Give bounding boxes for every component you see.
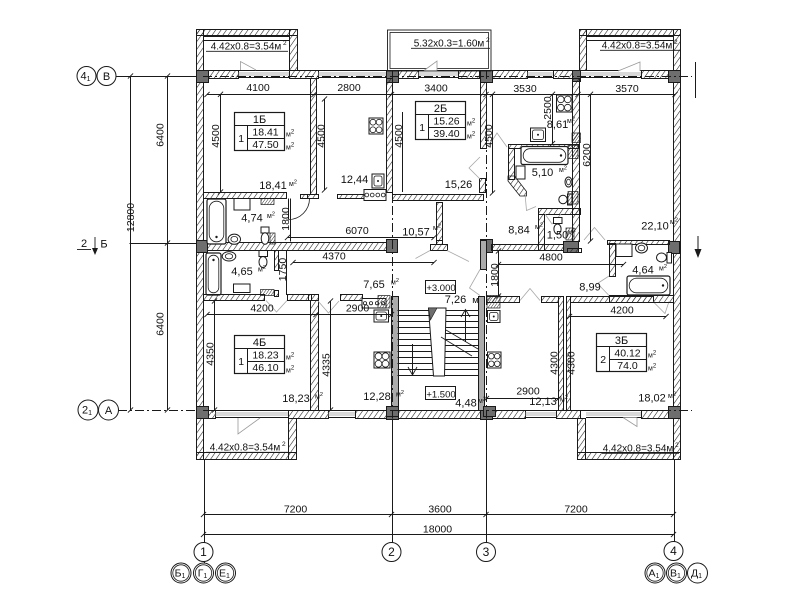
wall kitchen 8.61 bottom [509,145,579,149]
svg-text:5,10: 5,10 [532,167,553,179]
door arc room 1B [289,199,310,220]
wall 1B/kitchen vertical [311,79,317,195]
wall bottom seg f [557,411,581,419]
washbasin 4.64 [636,243,648,253]
svg-text:12800: 12800 [125,203,137,232]
svg-text:4100: 4100 [246,82,270,94]
svg-text:Б: Б [100,239,107,251]
axis circle V top left [97,67,116,86]
svg-text:3600: 3600 [428,504,452,516]
wall kitchen 12.13 top right [542,297,559,303]
washbasin 4.74 [228,234,240,244]
svg-text:4,74: 4,74 [241,213,262,225]
wall thin axis3 upper [481,83,487,149]
svg-text:+1.500: +1.500 [426,390,455,401]
balcony TC inner rect [390,33,489,69]
window kitchen 12.28 [328,411,355,418]
svg-text:4200: 4200 [250,303,274,315]
junction axis2-top [387,71,399,83]
door swing entrance 3B [470,270,481,296]
section mark 2 left [77,237,108,255]
svg-text:12,44: 12,44 [341,174,369,186]
wall corridor vertical (10.57) [437,203,443,241]
balcony TR parapet line 1 [586,36,673,38]
svg-text:2: 2 [283,40,287,47]
wall bottom seg e [490,411,526,419]
svg-text:4500: 4500 [316,124,328,148]
axis circle 2-1 bottom left [78,400,98,420]
svg-text:4800: 4800 [539,252,563,264]
wall 1B bottom [204,193,287,199]
balcony BL right wall [289,419,297,460]
axis circle A1 [645,563,665,583]
balcony TR parapet line 2 [586,40,673,42]
balcony TR label [600,39,680,52]
washer bath 5.10 [516,166,525,179]
toilet 4.65 [259,251,268,268]
sink kitchen 12.28 [374,310,389,322]
balcony door 22.10 [618,62,640,71]
svg-text:40.12: 40.12 [614,348,640,360]
apartment table 2B [416,102,476,141]
vent shaft right of stair [487,296,500,309]
svg-text:1800: 1800 [489,263,501,287]
svg-text:3530: 3530 [513,83,537,95]
axis circle 3 [477,543,496,562]
apartment table 3B [597,334,657,373]
door leaf room 1B [288,199,290,220]
wall bath 5.10 left [509,149,515,180]
svg-text:46.10: 46.10 [252,362,278,374]
window 4B bottom [215,411,288,418]
vent wc 1.50 [566,228,574,240]
svg-text:2: 2 [674,39,678,46]
dim 6200 line [590,94,592,241]
washbasin 4.65 [222,252,236,261]
door swing room 22.10 [584,228,605,241]
wall bath 4.64 left upper [610,244,616,277]
elevation mark +3.000 [426,281,456,295]
svg-text:4: 4 [670,544,677,558]
axis line A inside [203,410,692,412]
window kitchen 12.13 [525,411,556,418]
junction axis4-A [669,407,681,419]
svg-text:4370: 4370 [322,251,346,263]
wall kitchen 12.13 top [487,297,520,303]
wall room 3B top [571,297,654,303]
door swing bath 5.10 [525,194,536,211]
svg-text:2Б: 2Б [434,103,447,115]
svg-text:+3.000: +3.000 [426,283,455,294]
wall axis-B stub above footing [437,241,443,245]
junction axis2-A [387,407,399,420]
wall bottom seg c [356,411,387,419]
svg-text:1Б: 1Б [253,114,266,126]
svg-text:2900: 2900 [346,303,370,315]
svg-text:4,65: 4,65 [231,266,252,278]
balcony BL bottom wall [197,453,297,460]
svg-text:А: А [105,405,113,417]
vent on wall22 upper [568,146,578,159]
extension line B axis [130,243,197,245]
vent right of toilet 4.74 [270,233,275,244]
bathtub 4.65 [206,253,221,295]
dim line bottom 18000 [204,534,674,536]
balcony TL label [206,40,288,53]
svg-text:18,02: 18,02 [638,393,666,405]
stair up arrow [461,310,470,343]
axis line 3 vertical [486,70,488,418]
svg-text:В: В [103,71,110,83]
svg-text:2: 2 [486,37,490,44]
balcony TR right wall [674,30,681,71]
balcony BL label [206,441,289,454]
stair mid stringer [429,308,447,376]
dim 1750 line [286,251,288,296]
wall bottom seg d [398,411,481,419]
svg-text:4.42х0.8=3.54м: 4.42х0.8=3.54м [210,443,281,454]
wall bath 4.65 partition upper [275,251,279,271]
svg-text:1,50: 1,50 [547,230,568,242]
svg-text:18,23: 18,23 [282,393,310,405]
window kitchen 12.44 [318,71,387,78]
washer bath 4.74 [234,199,250,211]
wall thin axis3 lower stub [480,179,486,193]
wall axis-B left segment [208,243,387,251]
axis circle 1 [194,543,213,562]
door swing kitchen 12.13 [520,289,540,301]
dim 4500 line r1 right [324,99,326,190]
wall exterior left [197,71,204,419]
svg-text:8,84: 8,84 [508,225,529,237]
junction axis3-top [481,71,493,83]
svg-text:2500: 2500 [542,96,554,120]
bathtub 4.74 [207,199,226,244]
dim 2500 line [552,94,554,143]
svg-text:1: 1 [419,122,425,134]
stair wall left [392,297,399,411]
wall top seg g [642,71,670,79]
svg-text:7,26: 7,26 [445,294,466,306]
dim 6070 line [288,237,435,239]
svg-text:47.50: 47.50 [252,139,278,151]
balcony BR bottom wall [578,453,681,460]
svg-text:6200: 6200 [581,143,593,167]
svg-text:5.32х0.3=1.60м: 5.32х0.3=1.60м [414,39,485,50]
balcony BR label [602,442,679,455]
door swing room 18.02 [653,302,669,314]
door swing entrance 2B [447,251,469,262]
balcony TC outer rect [388,30,492,71]
balcony TL right wall [290,30,298,71]
wall axis-B right segment b thin [608,241,670,245]
stair treads [398,311,479,376]
svg-text:7,65: 7,65 [363,279,384,291]
washer bath 4.65 [234,284,251,293]
svg-text:3570: 3570 [615,83,639,95]
balcony TL parapet line 2 [203,40,289,42]
section mark arrow right [695,236,702,258]
door swing bath 4.64 [598,276,610,296]
closet line room 2B [402,112,404,192]
mark line top right [695,62,697,98]
toilet 4.64 [657,253,672,264]
axis line B horizontal [116,76,197,78]
svg-text:2: 2 [675,442,679,449]
svg-text:18,41: 18,41 [259,180,287,192]
dim 4500 line r2 right [492,94,494,193]
axis line B inside [203,76,692,78]
svg-text:8,99: 8,99 [579,282,600,294]
window room 18.02 [586,411,641,418]
wall bath 5.10 bottom / wc top [539,209,581,215]
wall bath 4.64 bottom [610,296,674,303]
svg-text:1800: 1800 [280,207,292,231]
svg-text:4,48: 4,48 [455,398,476,410]
wall exterior right [674,71,681,419]
window 1B top [238,71,289,78]
wall kitchen 12.28 top [341,295,363,301]
svg-text:7200: 7200 [284,504,308,516]
balcony door 4B [238,418,260,434]
junction axis2-Bb [387,240,398,253]
svg-text:10,57: 10,57 [402,227,430,239]
wall top seg e [492,71,528,79]
wall top seg a [204,71,239,79]
axis circle D1 [688,563,708,583]
door swing room 2B [469,157,480,179]
junction axis1-Bb [197,241,208,253]
svg-text:6400: 6400 [155,312,167,336]
apartment table 4B [235,336,295,375]
bathtub 5.10 [521,147,568,165]
svg-text:4.42х0.8=3.54м: 4.42х0.8=3.54м [603,444,674,455]
svg-text:15.26: 15.26 [433,116,459,128]
junction wall22-Bb [564,242,579,253]
wall top seg b [290,71,319,79]
junction axis4-B [669,71,681,83]
svg-text:4200: 4200 [610,305,634,317]
vent bath 4.65 [261,290,275,296]
elevation mark +1.500 [426,387,456,401]
svg-text:4300: 4300 [566,351,578,375]
stair footing right [484,407,496,417]
junction balcony TR [573,71,581,82]
vent kitchen 8.61 [572,133,581,143]
svg-text:12,13: 12,13 [529,396,557,408]
door swing wc 1.50 [545,214,561,224]
svg-text:18.41: 18.41 [252,127,278,139]
wall axis-B right segment a [492,245,564,251]
vent on wall22 lower [568,192,578,205]
wall top seg f [554,71,573,79]
dim 2900 12.13 line [487,398,559,400]
dim line 6400 [167,76,169,410]
dim line 12800 [130,76,132,410]
axis line A horizontal [118,410,196,412]
wall kitchen 12.44 bottom [338,195,365,199]
window 2B top [418,71,458,78]
axis circle 4 [664,542,683,561]
stair wall right [479,297,485,411]
dim 4335 line [330,301,332,410]
sink kitchen 12.13 [488,311,501,323]
svg-text:4.42х0.8=3.54м: 4.42х0.8=3.54м [211,42,282,53]
balcony BR left wall [578,419,586,460]
axis circle V1 [667,563,687,583]
window room 22.10 [580,71,641,78]
axis 3 extension to circle [486,419,488,543]
wall axis3 gray piece [481,241,487,270]
svg-text:4Б: 4Б [253,337,266,349]
svg-text:4300: 4300 [549,351,561,375]
junction axis3-A [481,407,493,420]
junction axis4-Bb [669,242,680,254]
wall 4B top right [288,295,312,301]
svg-text:4500: 4500 [483,124,495,148]
svg-text:3: 3 [483,545,490,559]
wall top seg c [396,71,419,79]
door swing kitchen 8.61 [488,133,507,147]
svg-text:4335: 4335 [321,353,333,377]
axis 2 extension to circle [392,419,394,543]
svg-text:4500: 4500 [393,124,405,148]
dim 4200 3B line [570,316,667,318]
svg-text:12,28: 12,28 [363,391,391,403]
toilet 4.74 [261,227,269,244]
svg-text:22,10: 22,10 [641,221,669,233]
stove kitchen 12.13 [488,352,502,368]
stair break line 1 [446,330,478,349]
svg-text:2800: 2800 [337,82,361,94]
window kitchen 8.61 [527,71,553,78]
door swing entrance 1B [416,251,431,259]
svg-text:6070: 6070 [345,225,369,237]
balcony TL left wall [197,30,204,71]
wall double 12.13 side [559,297,564,411]
svg-text:3400: 3400 [424,83,448,95]
dim chain top interior [207,94,675,96]
wall bottom seg g [642,411,670,419]
balcony TL top wall [197,30,298,36]
stair break line 2 [441,337,472,356]
washbasin 5.10 [565,177,572,187]
junction axis3-Bb [481,240,493,253]
toilet 5.10 [559,194,572,205]
balcony BR right wall [674,419,681,460]
dim 4200 4B line [207,314,392,316]
sink kitchen 8.61 [531,128,546,142]
svg-text:1: 1 [200,545,207,559]
svg-text:2: 2 [388,545,395,559]
stove kitchen 12.28 [374,352,390,368]
wall bottom seg a [204,411,216,419]
sink kitchen 12.44 [372,174,384,188]
stove kitchen 8.61 [557,95,573,112]
svg-text:м: м [472,295,479,306]
axis line 2 vertical [392,70,394,418]
vent block kitchen 12.44 [364,190,386,201]
svg-text:6400: 6400 [155,123,167,147]
wall bath 4.65 partition lower [275,291,279,297]
wall bottom seg b [289,411,329,419]
svg-text:7200: 7200 [564,504,588,516]
balcony TR top wall [580,30,681,36]
balcony TC label [411,37,490,50]
svg-text:39.40: 39.40 [433,128,459,140]
vent bath 4.74 [261,199,274,205]
svg-text:4500: 4500 [210,124,222,148]
svg-text:4350: 4350 [205,342,217,366]
balcony door 18.02 [623,418,637,427]
wall 4B top left [204,295,265,301]
wall 4B/12.28 vertical [311,301,319,411]
svg-text:8,61: 8,61 [547,119,568,131]
axis circle 4-1 top left [77,67,96,86]
axis circle B1 [171,563,191,583]
axis 1 extension to circle [204,460,206,583]
vent shaft left of stair [378,296,390,309]
svg-text:18000: 18000 [423,524,452,536]
axis circle A left [99,400,119,420]
balcony TR left wall [580,30,587,71]
stair down arrow [408,344,417,375]
stove kitchen 12.44 [369,118,383,134]
junction axis1-B [197,71,209,83]
axis circle 2 [382,543,401,562]
wall axis-B footing [431,245,448,251]
svg-text:74.0: 74.0 [617,360,638,372]
dim 4370 line [293,262,434,264]
wall stub left of door 1B [301,195,308,199]
wall double 18.02 side [567,297,571,411]
dim line bottom 7200s [204,514,674,516]
junction axis1-A [197,407,209,419]
svg-text:3Б: 3Б [615,335,628,347]
washer bath 4.64 [616,244,632,257]
svg-text:1: 1 [238,356,244,368]
dim 4800 line [499,264,624,266]
wall top seg d [459,71,480,79]
wall bath 5.10 diagonal [508,176,527,196]
dim 4350 line [214,301,216,410]
dim 4500 line r1 left [220,94,222,192]
svg-text:4.42х0.8=3.54м: 4.42х0.8=3.54м [602,41,673,52]
door swing kitchen 12.28 [318,301,339,313]
dim 1800 line hall 8.99 [498,251,500,296]
axis circle G1 [194,563,214,583]
bathtub 4.64 [627,276,670,295]
svg-text:2: 2 [282,441,286,448]
axis 4 extension to circle [674,460,676,552]
svg-text:2: 2 [81,238,87,250]
wall wc 1.50 left [539,215,545,251]
balcony door 1B [241,62,257,71]
svg-text:1750: 1750 [277,258,289,282]
apartment table 1B [235,113,295,152]
wall toilet bottom piece [568,249,582,253]
svg-text:18.23: 18.23 [252,350,278,362]
axis circle E1 [216,563,236,583]
wall footing under 1B/kitchen wall [308,195,319,199]
balcony door 2B [424,61,437,71]
toilet wc 1.50 [554,218,563,235]
wall 2B bottom [393,195,484,201]
partition line bath 4.74 [290,199,292,242]
balcony BL left wall [197,419,204,460]
svg-text:2: 2 [600,354,606,366]
svg-text:4,64: 4,64 [632,265,653,277]
